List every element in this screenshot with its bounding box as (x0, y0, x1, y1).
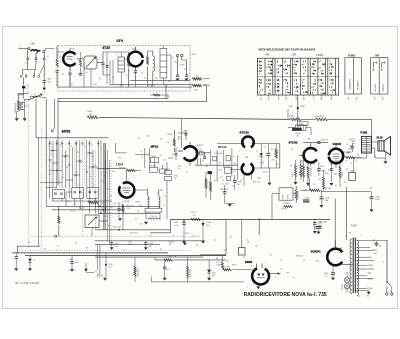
switch contact d (38, 76, 40, 78)
svg-text:5: 5 (251, 258, 252, 260)
svg-text:8n: 8n (325, 276, 327, 278)
svg-text:1: 1 (361, 235, 362, 237)
svg-text:C531 27: C531 27 (349, 139, 356, 141)
wire osc line y137 (36, 99, 108, 138)
wire SF4 stubs (84, 52, 171, 87)
svg-text:500M: 500M (368, 265, 373, 267)
cap under V3 (117, 209, 120, 211)
cap C560 (317, 169, 320, 171)
resistor R507 (290, 118, 301, 121)
svg-text:72: 72 (174, 178, 176, 180)
svg-text:5,4: 5,4 (147, 199, 149, 201)
cap C532 (317, 142, 320, 144)
svg-text:1k: 1k (62, 177, 64, 179)
svg-text:6TO32: 6TO32 (240, 131, 250, 135)
diode C521 (207, 270, 211, 273)
svg-text:R544 470: R544 470 (296, 256, 303, 258)
svg-text:R5: R5 (206, 166, 208, 168)
wire V8 cathode (332, 265, 334, 273)
svg-text:C5: C5 (111, 207, 113, 209)
svg-text:47n: 47n (109, 267, 112, 269)
ground diode 17 (28, 268, 32, 271)
svg-text:R514 100k: R514 100k (138, 269, 140, 277)
wire mains rail (386, 240, 388, 282)
svg-text:105: 105 (140, 224, 143, 226)
svg-text:R567 100: R567 100 (253, 182, 260, 184)
switch top contacts (49, 143, 51, 145)
wire dotted y236.3 (30, 235, 200, 237)
svg-text:105: 105 (192, 236, 195, 238)
svg-text:C5: C5 (94, 165, 96, 167)
wire riser x166 (165, 85, 167, 99)
resistor column R543 (303, 165, 305, 177)
ground MF21B (228, 204, 232, 207)
antenna terminal 1 (28, 48, 30, 50)
antenna terminal row 2 c (43, 58, 45, 60)
svg-text:MF19: MF19 (151, 145, 159, 149)
cap trimmer 2 (185, 75, 188, 77)
svg-text:R5: R5 (367, 296, 369, 298)
resistor R503 vertical (128, 58, 130, 68)
cap trimmer 1 (176, 75, 179, 77)
ground C548b (201, 241, 205, 244)
wire grid line y142.7 (303, 142, 328, 144)
cap C546b (316, 227, 322, 229)
svg-text:2: 2 (270, 267, 271, 269)
svg-text:R563: R563 (292, 173, 294, 177)
wire bus right (328, 118, 372, 120)
resistor V5 bias 2 (300, 164, 302, 177)
wire bottom return y282 (151, 277, 244, 282)
svg-text:5ORP1: 5ORP1 (311, 250, 321, 254)
svg-text:T2: T2 (27, 92, 29, 94)
switch contact a (20, 76, 22, 78)
resistor R527 (316, 118, 328, 121)
svg-text:C0: C0 (112, 77, 114, 79)
table grid main (257, 58, 338, 95)
svg-text:C544: C544 (305, 197, 309, 199)
resistor MF21B bias 2 (210, 181, 212, 192)
svg-text:8: 8 (257, 151, 258, 153)
svg-text:56: 56 (222, 180, 224, 182)
resistor R567 (323, 177, 325, 189)
svg-text:0,1: 0,1 (358, 296, 360, 298)
svg-text:V5: V5 (291, 149, 293, 151)
svg-text:S.FV: S.FV (192, 54, 197, 56)
svg-text:4,7n: 4,7n (175, 225, 179, 227)
svg-text:C5: C5 (290, 185, 292, 187)
svg-text:C1: C1 (59, 57, 61, 59)
svg-text:1: 1 (30, 73, 31, 75)
wire vertical x38.5 (38, 138, 40, 246)
svg-text:7p: 7p (52, 164, 54, 166)
svg-text:R538 56: R538 56 (284, 203, 290, 205)
wire hatch links (288, 128, 311, 136)
wire x226 riser (225, 219, 227, 254)
svg-text:R5: R5 (214, 180, 216, 182)
svg-text:C5: C5 (74, 204, 76, 206)
cap C562 (330, 169, 333, 171)
tube V4 stubs (178, 142, 190, 165)
svg-text:FM: FM (266, 55, 269, 57)
svg-text:C5: C5 (318, 179, 320, 181)
arrow output (278, 272, 281, 274)
wire corner y246 (18, 246, 41, 253)
svg-text:FONO: FONO (98, 272, 100, 278)
wire antenna input right (45, 49, 54, 51)
svg-text:C510 R512: C510 R512 (129, 233, 138, 235)
inductor L1 tunable (30, 96, 41, 98)
switch box 1 (52, 189, 64, 198)
svg-text:1n: 1n (141, 157, 143, 159)
MF21B can 2 (226, 156, 230, 161)
ground C545 (331, 278, 335, 281)
svg-text:7: 7 (266, 262, 267, 264)
wire V1d top link (217, 143, 280, 145)
svg-text:C544: C544 (303, 190, 307, 192)
wire bus y98 (58, 95, 168, 98)
tube V8 SORP1 (327, 249, 342, 266)
svg-text:Ha: Ha (346, 169, 348, 171)
svg-text:R5: R5 (287, 273, 289, 275)
wire antenna drop x23.5 lower (23, 94, 25, 99)
tube V6 ticks (333, 144, 340, 168)
svg-text:7n: 7n (123, 250, 125, 252)
svg-text:2n: 2n (379, 246, 381, 248)
wire L1 to bus (42, 97, 46, 99)
secondary winding 4 (357, 269, 359, 279)
svg-text:56n: 56n (102, 221, 105, 223)
cap C543 (313, 223, 317, 225)
wire diode leads (260, 144, 262, 169)
svg-text:47: 47 (126, 75, 128, 77)
IF can 2 (160, 49, 167, 79)
svg-text:R5 47k: R5 47k (263, 172, 269, 174)
svg-text:C5: C5 (75, 243, 77, 245)
switch arm marks (25, 64, 44, 75)
junction C500 (105, 264, 107, 266)
svg-text:C52B: C52B (151, 156, 156, 158)
feedback network box (279, 188, 293, 200)
wire V8 top (335, 240, 337, 249)
svg-text:R5: R5 (147, 136, 149, 138)
svg-text:C528 R570: C528 R570 (220, 189, 229, 191)
svg-text:C5: C5 (135, 219, 137, 221)
wire bus y229.8 (95, 229, 170, 231)
primary winding (350, 239, 352, 294)
svg-text:C5: C5 (140, 151, 142, 153)
svg-text:B52: B52 (178, 139, 181, 141)
svg-text:4n: 4n (80, 162, 82, 164)
svg-text:4n: 4n (202, 161, 204, 163)
svg-text:17k: 17k (296, 136, 299, 138)
svg-text:104: 104 (139, 205, 142, 207)
coil L5 lower (148, 218, 160, 219)
svg-text:C5: C5 (160, 155, 162, 157)
svg-text:MUTAREV: MUTAREV (357, 80, 360, 90)
wire caps drop (166, 162, 168, 219)
wire MF21B verticals (211, 148, 238, 182)
tube V1a grid ticks (67, 48, 73, 71)
speaker cone (384, 137, 391, 156)
wire feedback links (272, 186, 296, 219)
resistor R514 (134, 266, 136, 277)
svg-text:104: 104 (255, 246, 258, 248)
ground detector (268, 183, 272, 186)
antenna terminal row 2 b (35, 58, 37, 60)
svg-text:C502 1,5: C502 1,5 (150, 216, 157, 218)
svg-text:R072: R072 (129, 244, 133, 246)
svg-text:105: 105 (169, 244, 172, 246)
resistor above V3 (126, 169, 135, 171)
junction T5B (297, 107, 299, 109)
svg-text:17: 17 (33, 260, 35, 262)
wire bus y84.6 (110, 85, 192, 88)
cap C512 (144, 243, 147, 245)
svg-text:14: 14 (353, 143, 355, 145)
wire trimmer drops (178, 57, 187, 75)
box R54B (297, 121, 308, 125)
wire main lower bus y219 (171, 218, 331, 220)
svg-text:R516: R516 (168, 134, 173, 136)
wire MF21B bus (195, 164, 238, 166)
svg-text:R5: R5 (349, 233, 351, 235)
junction dot R541 (55, 235, 57, 237)
svg-text:C5: C5 (346, 144, 348, 146)
wire bus y87.1 (58, 86, 192, 88)
wire x346.7 drop (346, 187, 348, 240)
polarized cap C548b (201, 223, 204, 226)
ground C543 (313, 231, 317, 234)
wire bus y252.9 (12, 252, 168, 254)
svg-text:C5: C5 (313, 164, 315, 166)
svg-text:24: 24 (370, 188, 372, 190)
svg-text:C5B1: C5B1 (257, 178, 261, 180)
wire mesh jumpers (50, 151, 99, 181)
coil L3 (148, 196, 150, 208)
wire V1d lower left link (230, 169, 241, 171)
wire bus y255.6 (25, 255, 226, 257)
junction dots bottom left (99, 206, 101, 208)
svg-text:2: 2 (60, 146, 61, 148)
wire antenna input left (18, 48, 28, 50)
ground speaker (384, 161, 388, 164)
tube V7 DM81 (252, 268, 269, 284)
svg-text:R5H: R5H (301, 106, 306, 108)
svg-text:R5: R5 (107, 168, 109, 170)
svg-text:R529: R529 (88, 111, 94, 113)
svg-text:4n: 4n (293, 277, 295, 279)
svg-text:R569: R569 (342, 172, 344, 176)
wire bus y257.1 (95, 256, 203, 258)
wire switch bank verticals (50, 140, 110, 244)
svg-text:R530 104: R530 104 (298, 191, 300, 198)
mesh contact circles (52, 150, 53, 151)
svg-text:C5: C5 (138, 138, 140, 140)
wire y206.3 (46, 205, 160, 207)
svg-text:5: 5 (92, 146, 93, 148)
ground C500 (103, 278, 107, 281)
svg-text:MF21B: MF21B (218, 145, 227, 149)
svg-text:R5: R5 (196, 245, 198, 247)
wire x288 segment (287, 109, 289, 119)
cap detector (266, 154, 270, 156)
speaker frame (378, 141, 384, 151)
wire y201 (52, 200, 112, 202)
wire to electrolytic (23, 77, 25, 86)
wire terminal stubs (28, 50, 45, 58)
ground C1 left (14, 268, 18, 271)
svg-text:104: 104 (212, 275, 215, 277)
wire bus drop to TU2B (371, 119, 373, 136)
svg-text:C5: C5 (214, 240, 216, 242)
wire chain fillers (168, 143, 211, 165)
wire bottom rail y80 (130, 79, 190, 81)
svg-text:R5: R5 (150, 236, 152, 238)
resistor R55 (223, 269, 232, 271)
tube V1b stubs (124, 47, 136, 71)
volume pot arrow (88, 217, 97, 225)
svg-text:104: 104 (163, 160, 166, 162)
secondary winding 3 (357, 261, 359, 271)
wire bus y101.6 (58, 86, 207, 102)
arrow down marker (183, 243, 187, 246)
svg-text:470: 470 (272, 160, 275, 162)
svg-text:+12 EA: +12 EA (123, 200, 130, 203)
cap C528b (223, 192, 226, 194)
ground C562 (330, 183, 334, 186)
wire terminal drops (28, 60, 45, 70)
svg-text:R5: R5 (290, 166, 292, 168)
svg-text:47k: 47k (328, 170, 331, 172)
svg-text:47n: 47n (232, 186, 235, 188)
svg-text:C5: C5 (220, 177, 222, 179)
svg-text:47k: 47k (112, 171, 115, 173)
svg-text:INT: INT (375, 55, 380, 58)
table contact marks (258, 61, 335, 95)
resistor R529 (87, 116, 98, 119)
svg-text:R5?4: R5?4 (232, 265, 236, 267)
ground C548 (320, 205, 324, 208)
svg-text:R5: R5 (230, 237, 232, 239)
svg-text:L5: L5 (163, 205, 165, 207)
svg-text:VEDI SELEZIONE DEI TASTI IN BA: VEDI SELEZIONE DEI TASTI IN BASSO (258, 48, 316, 52)
wire FONO drops (97, 245, 100, 278)
ground C546b (317, 232, 321, 235)
svg-text:C554 56: C554 56 (281, 209, 287, 211)
svg-text:7p: 7p (172, 57, 174, 59)
wire x335.2 drop (334, 199, 336, 248)
svg-text:C52: C52 (226, 261, 229, 263)
svg-text:R515: R515 (66, 201, 70, 203)
wire x46.2 vertical (45, 99, 47, 183)
resistor R541 vertical (58, 216, 60, 224)
tube V5 stubs (299, 143, 311, 166)
cap chain 1 (203, 157, 206, 159)
wire pickup leads (17, 100, 30, 119)
cap C549 (370, 197, 374, 199)
IFT coil pair (147, 56, 149, 65)
svg-text:C18: C18 (174, 62, 177, 64)
svg-text:R51: R51 (114, 204, 117, 206)
svg-text:T4,24: T4,24 (351, 226, 358, 228)
svg-text:13SF8: 13SF8 (333, 142, 342, 146)
svg-text:22: 22 (335, 185, 337, 187)
svg-text:C5: C5 (350, 163, 352, 165)
junction v1 drops (70, 77, 166, 87)
antenna terminal row 2 a (27, 58, 29, 60)
diode F0 (84, 269, 87, 272)
mains switch (387, 282, 391, 290)
svg-text:C5: C5 (137, 211, 139, 213)
svg-text:100n: 100n (75, 262, 79, 264)
svg-text:ka: ka (277, 164, 279, 166)
svg-text:C5: C5 (303, 260, 305, 262)
svg-text:C504 R506: C504 R506 (147, 85, 156, 87)
wire y191.5 output B+ (321, 190, 371, 191)
svg-text:ACCESO: ACCESO (374, 83, 377, 92)
cap C1 left (15, 257, 18, 259)
IF winding box W1 (118, 57, 125, 72)
svg-text:L2: L2 (38, 62, 40, 64)
wire V8 to transformer (341, 263, 352, 265)
svg-text:R510: R510 (185, 233, 189, 235)
mains plug pins (386, 293, 388, 295)
svg-text:2n: 2n (90, 176, 92, 178)
tube V7 pins (257, 264, 263, 269)
capacitor under V1a (68, 73, 71, 75)
svg-text:R5 104: R5 104 (79, 208, 85, 210)
svg-text:C5: C5 (243, 257, 245, 259)
wire bus mid (302, 118, 316, 120)
oscillator section box (84, 56, 97, 69)
svg-text:1k: 1k (193, 215, 195, 217)
svg-text:L5N: L5N (31, 44, 36, 46)
svg-text:R5: R5 (330, 164, 332, 166)
svg-text:22: 22 (373, 242, 375, 244)
svg-text:F0: F0 (95, 271, 97, 273)
wire lamps (346, 272, 348, 293)
pilot lamp 2 (344, 284, 349, 289)
svg-text:R5: R5 (86, 248, 88, 250)
resistor R502 heater (192, 84, 202, 86)
svg-text:OM: OM (292, 55, 296, 57)
wire R55 to tube (233, 269, 253, 271)
ground V5 bias (294, 182, 298, 185)
switch box 2 (72, 188, 84, 199)
svg-text:C5 104: C5 104 (224, 166, 230, 168)
svg-text:C5: C5 (101, 181, 103, 183)
pickup connector (20, 102, 24, 109)
cap C548 (320, 197, 324, 199)
svg-text:47n: 47n (178, 168, 181, 170)
svg-text:C532 27: C532 27 (321, 139, 329, 141)
oscillator diagonal (86, 57, 96, 67)
wire R505 line (155, 257, 226, 260)
tube V3 (119, 182, 134, 197)
svg-text:50: 50 (66, 167, 68, 169)
ground C521 (207, 278, 211, 281)
table FONO box (345, 58, 361, 94)
resistor volume (275, 149, 277, 159)
wire right edge x279.8 (279, 144, 281, 169)
svg-text:C5: C5 (64, 157, 66, 159)
wire phono corner (17, 95, 24, 100)
svg-text:105 C51B: 105 C51B (113, 226, 122, 228)
resistor switch row (88, 201, 99, 203)
ground phono 1 (15, 118, 19, 121)
resistor R545 (309, 189, 320, 191)
